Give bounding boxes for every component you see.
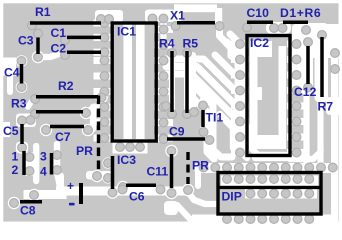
pads TI1 [199, 101, 208, 136]
pad C7 right [84, 126, 93, 135]
capacitor C10 [247, 20, 273, 24]
svg-text:C10: C10 [247, 6, 270, 20]
wire C5 top pad band [16, 114, 36, 128]
resistor R3 [36, 110, 83, 114]
wire IC2 interior notch [250, 87, 262, 100]
wire IC2 right pad stub [291, 118, 302, 125]
wire outer DIP pad row band [194, 163, 338, 173]
pad C2 left [61, 51, 70, 60]
label C5 [3, 124, 19, 138]
pads header 3-4 [53, 151, 62, 175]
pads R4 [162, 49, 177, 119]
wire header 3-4 right vertical [57, 144, 61, 190]
label plus [67, 179, 74, 193]
svg-text:PR: PR [76, 144, 93, 158]
pad C8 left [10, 199, 19, 208]
pads C10 [243, 23, 279, 32]
resistor R5 [185, 51, 189, 113]
pads top patch B [148, 14, 168, 23]
label D1+R6 [280, 6, 321, 20]
svg-text:IC3: IC3 [117, 153, 136, 167]
svg-text:4: 4 [40, 165, 47, 179]
svg-text:IC1: IC1 [117, 25, 136, 39]
capacitor C11 [170, 154, 174, 188]
pads C11 [167, 147, 176, 198]
wire IC1 right pad stub [158, 57, 170, 64]
IC1 left pads [100, 19, 109, 143]
label minus [69, 203, 75, 206]
wire under R5 [184, 53, 190, 113]
pads R5 [183, 49, 199, 119]
label R7 [318, 100, 334, 114]
wire IC1 right pad stub [158, 26, 170, 33]
capacitor C7 [50, 125, 84, 129]
capacitor C6 [126, 183, 156, 187]
wire fan lane 1 [166, 59, 240, 91]
wire under R6 R7 [319, 31, 326, 101]
header pins 1-2 [22, 151, 26, 175]
wire C8 left pad [8, 197, 20, 209]
wire IC1 left pad stub [97, 73, 110, 80]
pad C7 left [42, 126, 51, 135]
wire IC2 left pad column [235, 40, 247, 157]
label IC3 [117, 153, 136, 167]
wire IC2 interior bottom band [250, 135, 286, 149]
svg-text:1: 1 [12, 150, 19, 164]
wire fan lane 3 [166, 74, 239, 122]
wire right edge vertical [331, 28, 338, 224]
DIP pads row above [199, 163, 337, 172]
label C6 [129, 190, 145, 204]
wire fan lane 5 [194, 99, 214, 159]
svg-text:R5: R5 [183, 37, 199, 51]
capacitor C12 [306, 46, 310, 84]
label pin 2 [12, 163, 19, 177]
label C11 [147, 165, 169, 179]
wire IC2 left pad stub [235, 134, 246, 141]
wire DIP row1 band [221, 176, 318, 186]
resistors R6 R7 [320, 37, 324, 97]
wire border left [0, 0, 3, 226]
wire below C12 vertical [303, 150, 309, 164]
wire vertical under IC1 right top [161, 20, 167, 45]
wire border bottom [0, 222, 342, 226]
pads D1 [278, 24, 310, 35]
wire below R7 to bottom [290, 96, 321, 166]
wire left edge connector stub [0, 58, 16, 76]
wire bottom band main [61, 187, 187, 196]
wire top patch left of IC1 [95, 10, 123, 22]
wire under C12 [305, 39, 312, 89]
pads C6 [118, 185, 165, 194]
wire IC1 right pad stub [158, 42, 170, 49]
label DIP [222, 189, 242, 203]
wire C9 right pad area [203, 134, 215, 146]
DIP pads row 2 [246, 189, 314, 198]
wire IC2 right pad stub [291, 72, 302, 79]
wire under R4 [169, 53, 175, 113]
wire IC1 left pad stub [97, 119, 110, 126]
svg-text:C6: C6 [129, 190, 145, 204]
wire fan diag up 3 [215, 55, 240, 75]
wire D1-R6 pad band [298, 23, 328, 34]
label pin 3 [40, 150, 47, 164]
wire IC2 left pad stub [235, 72, 246, 79]
pad C8 right lead [30, 191, 39, 200]
pad PR left [93, 172, 102, 181]
label X1 [170, 9, 185, 23]
wire IC1 bottom pad area [113, 139, 148, 154]
wire fan lane 4 [189, 81, 232, 157]
DIP pads row 1 [223, 175, 314, 184]
wire C10-D1 pad band [266, 22, 291, 34]
label C7 [55, 130, 71, 144]
svg-text:C9: C9 [169, 124, 185, 138]
wire TI1 bottom stub [204, 127, 210, 140]
wire header mid vertical [33, 146, 39, 181]
label R5 [183, 37, 199, 51]
svg-text:D1+R6: D1+R6 [280, 6, 321, 20]
pad PR right [184, 186, 193, 195]
wire C11 pads [165, 145, 177, 199]
svg-text:C1: C1 [51, 26, 67, 40]
wire top right corner area [309, 24, 342, 58]
wire IC2 right pad stub [291, 41, 302, 48]
wire right of R5 [190, 55, 196, 112]
IC2 right pads [292, 40, 301, 157]
wire IC1 left pad stub [97, 34, 110, 41]
svg-text:C8: C8 [20, 204, 36, 218]
jumper PR left dashed [97, 96, 100, 171]
wire IC1 left pad stub [97, 49, 110, 56]
pad R2 right [97, 93, 106, 102]
svg-text:2: 2 [12, 163, 19, 177]
label C12 [294, 85, 317, 99]
wire IC3 side pads [102, 157, 113, 183]
resistor R1 [30, 21, 101, 25]
resistor R4 [170, 51, 174, 112]
pad C4 top [17, 57, 26, 66]
wire IC2 right column fill [292, 24, 328, 102]
label C8 [20, 204, 36, 218]
svg-text:R3: R3 [11, 97, 27, 111]
pads IC3 side [104, 159, 113, 183]
wire IC2 left pad stub [235, 41, 246, 48]
op-amp IC2 outline [247, 36, 290, 156]
wire top patch right of IC1 [145, 10, 175, 23]
wire IC2 left pad stub [235, 103, 246, 110]
wire IC1 right pad stub [158, 135, 170, 142]
svg-text:PR: PR [192, 159, 209, 173]
DIP switch outline [217, 173, 323, 215]
svg-text:C11: C11 [147, 165, 169, 179]
svg-text:DIP: DIP [222, 189, 242, 203]
wire left lower stub [0, 122, 10, 137]
wire DIP bottom band [192, 215, 335, 224]
svg-text:C12: C12 [294, 85, 317, 99]
wire IC2 right pad stub [291, 56, 302, 63]
wire below IC2 loop 1 [234, 113, 285, 155]
label IC2 [250, 36, 269, 50]
wire fan diag up 1 [220, 27, 239, 60]
svg-text:R4: R4 [159, 37, 175, 51]
wire IC2 right pad stub [291, 149, 302, 156]
label pin 4 [40, 165, 47, 179]
wire IC1 interior trace A [123, 28, 132, 140]
capacitor C1 [67, 36, 101, 40]
label pin 1 [12, 150, 19, 164]
label C4 [4, 66, 20, 80]
label R2 [58, 79, 74, 93]
wire border top [0, 0, 342, 3]
wire IC2 interior top patch [250, 41, 272, 57]
svg-text:C5: C5 [3, 124, 19, 138]
svg-text:C4: C4 [4, 66, 20, 80]
pad R3 left [31, 110, 40, 119]
pad R3 right [82, 109, 91, 118]
label PR right [192, 159, 209, 173]
capacitor C9 [167, 137, 205, 141]
label C10 [247, 6, 270, 20]
wire IC2 right pad stub [291, 87, 302, 94]
op-amp IC1 outline [112, 23, 156, 141]
wire IC2 left pad stub [235, 56, 246, 63]
wire IC1 left pad stub [97, 135, 110, 142]
pads top patch A [97, 15, 114, 24]
component IC3 lead [111, 156, 115, 189]
wire R2 left pad stub [28, 99, 33, 107]
DIP pads row bottom [223, 215, 314, 224]
wire bottom band riser [57, 176, 64, 193]
wire C4 pad stubs [16, 55, 28, 93]
diode D1 [283, 20, 308, 24]
wire bottom left of DIP blob [164, 201, 178, 215]
wire IC2 left pad stub [235, 87, 246, 94]
wire border right [339, 0, 342, 226]
pads header 1-2 [25, 153, 34, 176]
pad R1 left [28, 21, 37, 30]
pad R6 top [318, 31, 327, 40]
label C9 [169, 124, 185, 138]
pads C9 [159, 135, 214, 145]
resistor R2 [36, 95, 98, 99]
wire C7 pad areas [40, 124, 94, 136]
svg-text:C3: C3 [18, 34, 34, 48]
pad C1 left [61, 36, 70, 45]
wire vertical along left side [7, 66, 13, 92]
wire top band over X1 [174, 4, 222, 25]
pad C4 bottom [17, 83, 26, 92]
pads C12 [304, 38, 313, 92]
svg-text:R7: R7 [318, 100, 334, 114]
pads X1 [171, 22, 224, 31]
pads right edge [331, 49, 340, 74]
wire below IC2 loop 3 [220, 114, 239, 154]
wire bottom left of DIP diagonal [167, 205, 190, 219]
wire IC1 right pad stub [158, 119, 170, 126]
wire IC2 interior right stripe [279, 46, 287, 149]
pad IC3 bottom [108, 183, 127, 197]
crystal X1 [177, 21, 215, 25]
svg-text:R2: R2 [58, 79, 74, 93]
wire C8 right lead pad [28, 189, 40, 201]
wire below C12 to bottom [255, 87, 307, 158]
wire TI1 top stub [200, 99, 206, 106]
svg-text:+: + [67, 179, 74, 193]
wire PR left pad band [86, 170, 112, 182]
wire header 1-2 pads blob [25, 152, 35, 176]
capacitor C2 [67, 51, 101, 55]
svg-text:TI1: TI1 [206, 111, 224, 125]
label C3 [18, 34, 34, 48]
svg-text:C7: C7 [55, 130, 71, 144]
component TI1 [201, 110, 205, 127]
pad C5 top [18, 116, 35, 125]
pad C3 bottom [34, 53, 43, 62]
wire IC3 bottom pads [106, 181, 129, 199]
wire IC1 interior trace B [136, 28, 145, 140]
label TI1 [206, 111, 224, 125]
capacitor C5 [20, 124, 24, 144]
label R4 [159, 37, 175, 51]
wire fan lane 2 [166, 67, 240, 107]
header pins 3-4 [50, 153, 54, 175]
label C1 [51, 26, 67, 40]
svg-text:R1: R1 [35, 5, 51, 19]
wire fan diag up 5 [230, 34, 240, 44]
wire bottom band left [28, 190, 62, 199]
wire IC2 right pad stub [291, 134, 302, 141]
wire IC2 interior left stripe [250, 46, 258, 149]
wire right low patch [326, 97, 342, 115]
wire fan diag up 2 [227, 42, 240, 55]
wire IC1 left pad stub [97, 104, 110, 111]
wire IC1 right pad stub [158, 88, 170, 95]
wire PR right pad path [182, 184, 216, 204]
wire C5 bottom pad area [16, 141, 28, 153]
svg-text:X1: X1 [170, 9, 185, 23]
jumper PR right dashed [186, 152, 189, 184]
electrolytic capacitor lead [79, 183, 83, 204]
wire IC2 left pad stub [235, 149, 246, 156]
svg-text:C2: C2 [51, 42, 67, 56]
label R1 [35, 5, 51, 19]
wire IC1 left pad stub [97, 20, 110, 27]
wire IC1 right pad stub [158, 104, 170, 111]
label PR left [76, 144, 93, 158]
wire IC2 right pad stub [291, 103, 302, 110]
capacitor C3 [36, 38, 40, 55]
wire IC1 right pad stub [158, 73, 170, 80]
wire DIP row2 band [245, 189, 317, 199]
capacitor C8 [20, 200, 42, 204]
wire IC2 left pad stub [235, 118, 246, 125]
capacitor C4 [20, 64, 24, 84]
IC2 left pads [236, 40, 245, 157]
wire IC1 left pad stub [97, 88, 110, 95]
wire IC1 left pad stub [97, 57, 110, 64]
IC1 bottom pads [116, 143, 145, 152]
wire R3 right to IC1 pads [80, 107, 101, 129]
wire vertical left of DIP [195, 170, 201, 186]
pad C3 top [34, 29, 43, 38]
pad C5 bottom [18, 143, 27, 152]
label IC1 [117, 25, 136, 39]
label R3 [11, 97, 27, 111]
svg-text:IC2: IC2 [250, 36, 269, 50]
label C2 [51, 42, 67, 56]
pad R2 left [31, 95, 40, 104]
wire C9 left stub [159, 136, 167, 142]
wire C3 bottom link from C2 left [32, 51, 62, 63]
svg-text:3: 3 [40, 150, 47, 164]
wire R2 right pad stub [95, 91, 107, 103]
IC1 right pads [159, 25, 168, 142]
wire below IC2 loop 2 [226, 121, 247, 158]
